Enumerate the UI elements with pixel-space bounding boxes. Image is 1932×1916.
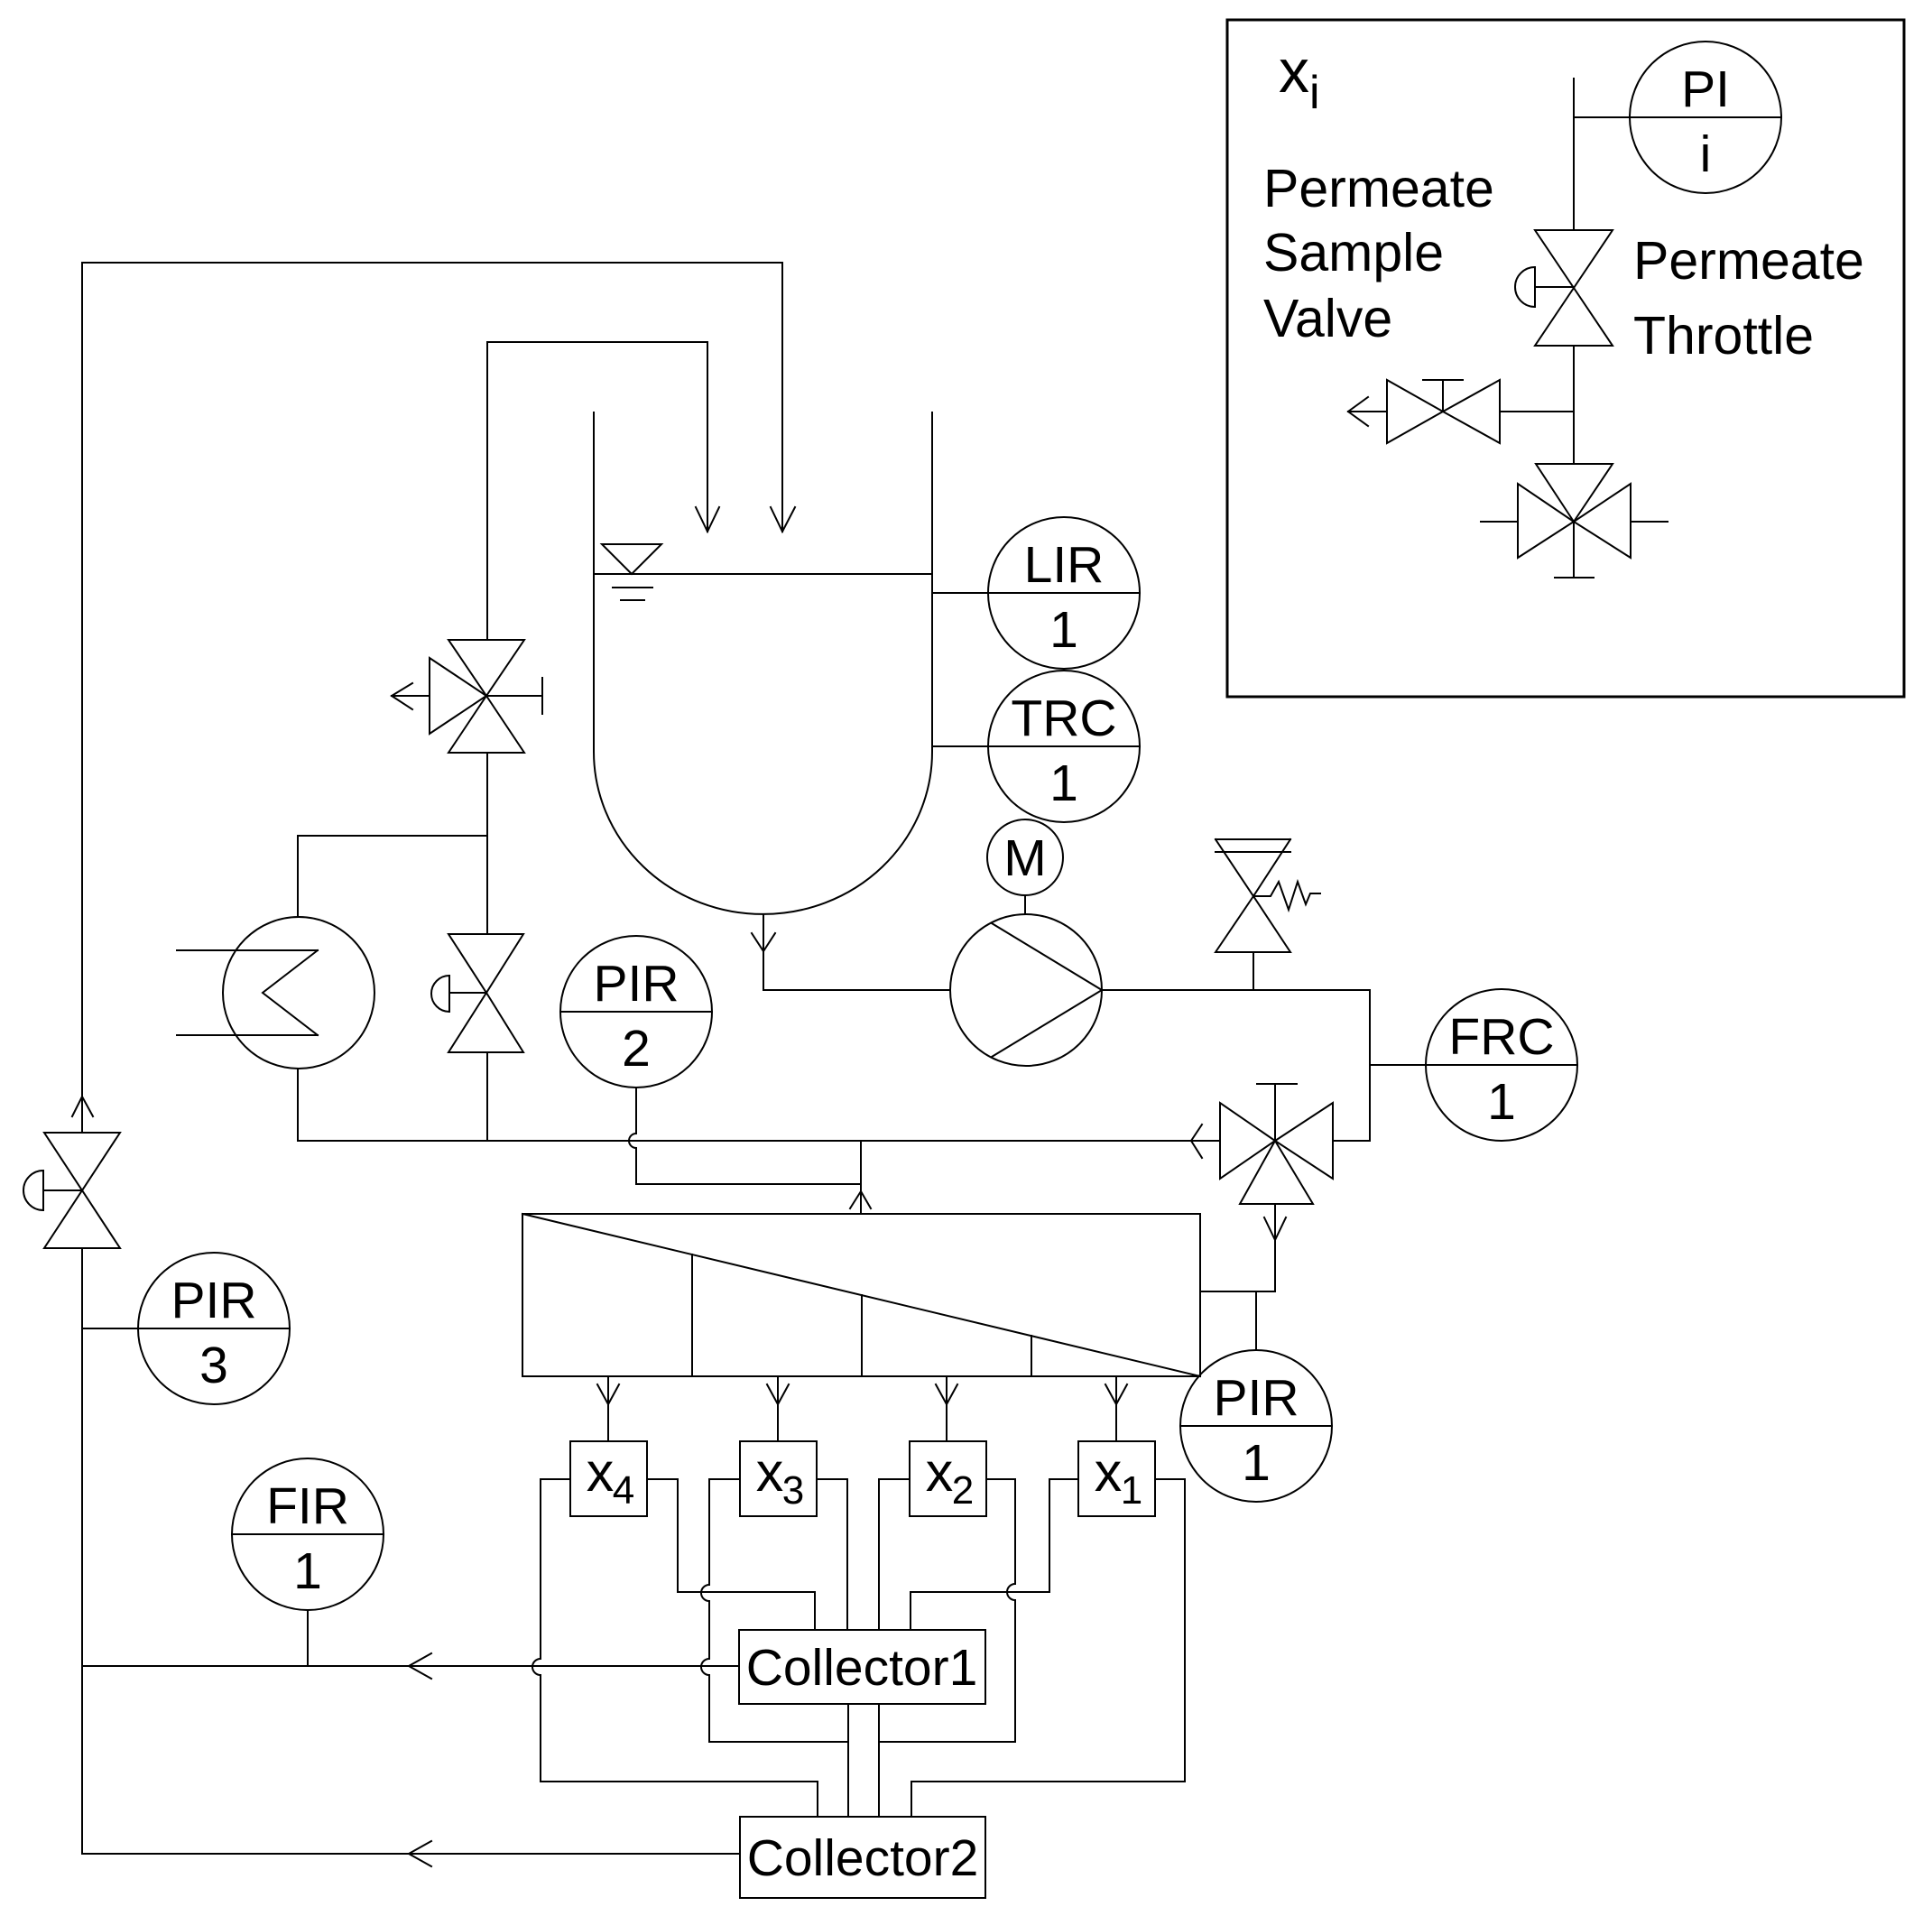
permeate sample valve (1348, 380, 1574, 443)
wire: x2 right branch to Collector2 (879, 1479, 1015, 1742)
svg-text:i: i (1309, 67, 1320, 119)
wire: valve V4 outlet down to membrane (1201, 1204, 1286, 1291)
motor M (987, 819, 1063, 914)
svg-text:LIR: LIR (1024, 536, 1105, 594)
svg-text:Permeate: Permeate (1263, 159, 1494, 218)
collector box Collector2 (740, 1817, 985, 1898)
sample box x1 (1078, 1441, 1155, 1516)
svg-text:x: x (756, 1441, 784, 1503)
svg-text:2: 2 (952, 1468, 974, 1513)
wire: pump discharge pipe (1102, 989, 1370, 991)
svg-text:i: i (1700, 125, 1712, 183)
svg-text:2: 2 (622, 1020, 651, 1078)
svg-text:x: x (1095, 1441, 1123, 1503)
svg-text:x: x (926, 1441, 954, 1503)
svg-text:Collector2: Collector2 (747, 1829, 979, 1887)
svg-text:TRC: TRC (1011, 690, 1116, 747)
sample box x4 (570, 1441, 647, 1516)
legend label Permeate Throttle (1633, 231, 1864, 366)
3-way valve V4 (membrane feed) (1220, 1084, 1370, 1204)
wire: permeate outlet 2 with arrow (936, 1376, 957, 1441)
svg-text:M: M (1003, 829, 1046, 887)
tank liquid level line (594, 573, 932, 575)
tank level symbol (602, 544, 661, 600)
4-way sample selector valve (1481, 464, 1668, 578)
sample box x3 (740, 1441, 817, 1516)
svg-text:1: 1 (1049, 601, 1078, 659)
membrane module M1 (522, 1214, 1200, 1376)
collector box Collector1 (739, 1630, 985, 1704)
wire: x2 left branch to Collector1 (879, 1479, 910, 1630)
instrument PI i (1574, 42, 1781, 193)
wire: x4 left branch to Collector2 (532, 1479, 818, 1817)
wire: permeate outlet 1 with arrow (1105, 1376, 1127, 1441)
svg-text:Permeate: Permeate (1633, 231, 1864, 291)
sample box x2 (910, 1441, 986, 1516)
svg-text:PIR: PIR (171, 1272, 256, 1329)
svg-text:1: 1 (293, 1542, 322, 1600)
wire: x3 left branch to Collector2 (701, 1479, 848, 1742)
wire: legend permeate line (1573, 79, 1575, 230)
wire: line between throttle valve and junction (1573, 346, 1575, 464)
instrument PIR 1 (1180, 1291, 1332, 1502)
wire: permeate outlet 4 with arrow (597, 1376, 619, 1441)
wire: relief valve branch (1253, 952, 1254, 990)
wire: Collector2 outlet line to left riser (with arrow) (82, 1841, 740, 1866)
wire: discharge drop pipe (1369, 990, 1371, 1141)
wire: permeate outlet 3 with arrow (767, 1376, 789, 1441)
wire: membrane feed connection with up arrow (850, 1141, 871, 1214)
wire: x1 right branch to Collector2 (911, 1479, 1185, 1817)
svg-text:FRC: FRC (1448, 1008, 1554, 1066)
svg-text:PI: PI (1681, 60, 1730, 118)
wire: left recycle riser (72, 263, 93, 1854)
instrument TRC 1 (932, 671, 1140, 822)
svg-text:Valve: Valve (1263, 289, 1392, 348)
svg-text:Throttle: Throttle (1633, 306, 1814, 366)
feed tank B1 shell (594, 412, 932, 914)
svg-text:3: 3 (782, 1468, 804, 1513)
svg-text:x: x (587, 1441, 615, 1503)
relief valve SV1 (1216, 839, 1320, 952)
wire: x1 left branch to Collector1 (911, 1479, 1078, 1630)
heat exchanger W1 (177, 917, 374, 1069)
wire: heat exchanger top pipe (298, 836, 487, 917)
control valve V3 (recycle riser) (23, 1133, 120, 1248)
legend label Permeate Sample Valve (1263, 159, 1494, 348)
3-way valve V1 (tank return) (392, 640, 542, 753)
svg-text:Sample: Sample (1263, 223, 1444, 282)
wire: x3 right branch to Collector1 (817, 1479, 847, 1630)
control valve V2 (tank outlet branch) (431, 934, 523, 1052)
pump P1 (950, 914, 1102, 1066)
wire: branch pipe through valve V2 (486, 836, 488, 1141)
svg-text:Collector1: Collector1 (746, 1639, 978, 1697)
svg-text:1: 1 (1242, 1434, 1271, 1492)
wire: PIR2 sensing line with crossing hop (629, 1088, 861, 1184)
svg-text:1: 1 (1487, 1073, 1516, 1131)
instrument FRC 1 (1370, 989, 1577, 1141)
svg-text:3: 3 (199, 1337, 228, 1394)
instrument PIR 3 (82, 1253, 290, 1404)
instrument FIR 1 (232, 1458, 384, 1666)
wire: Collector1 outlet line to left riser (with hops and arrow) (82, 1653, 739, 1679)
svg-text:PIR: PIR (593, 955, 679, 1013)
svg-text:4: 4 (613, 1468, 634, 1513)
wire: recycle return pipe into tank (from left riser) (82, 263, 795, 532)
svg-text:FIR: FIR (266, 1477, 349, 1535)
svg-text:PIR: PIR (1213, 1369, 1299, 1427)
inset legend box (1227, 20, 1904, 697)
wire: Collector1 bottom outlets to Collector2 (848, 1704, 879, 1817)
svg-text:1: 1 (1121, 1468, 1142, 1513)
svg-text:1: 1 (1049, 754, 1078, 812)
wire: heat exchanger bottom pipe (297, 1069, 299, 1141)
svg-text:x: x (1279, 37, 1309, 106)
wire: concentrate recycle pipe A (298, 1125, 1220, 1158)
wire: x4 right branch to Collector1 (647, 1479, 815, 1630)
wire: riser through valve V1 (486, 342, 488, 836)
legend label x_i (1279, 37, 1320, 119)
instrument LIR 1 (932, 517, 1140, 669)
permeate throttle valve (1515, 230, 1613, 346)
wire: 3-way-valve branch pipe into tank (487, 342, 719, 532)
wire: tank drain to pump suction (752, 914, 950, 990)
instrument PIR 2 (560, 936, 712, 1088)
